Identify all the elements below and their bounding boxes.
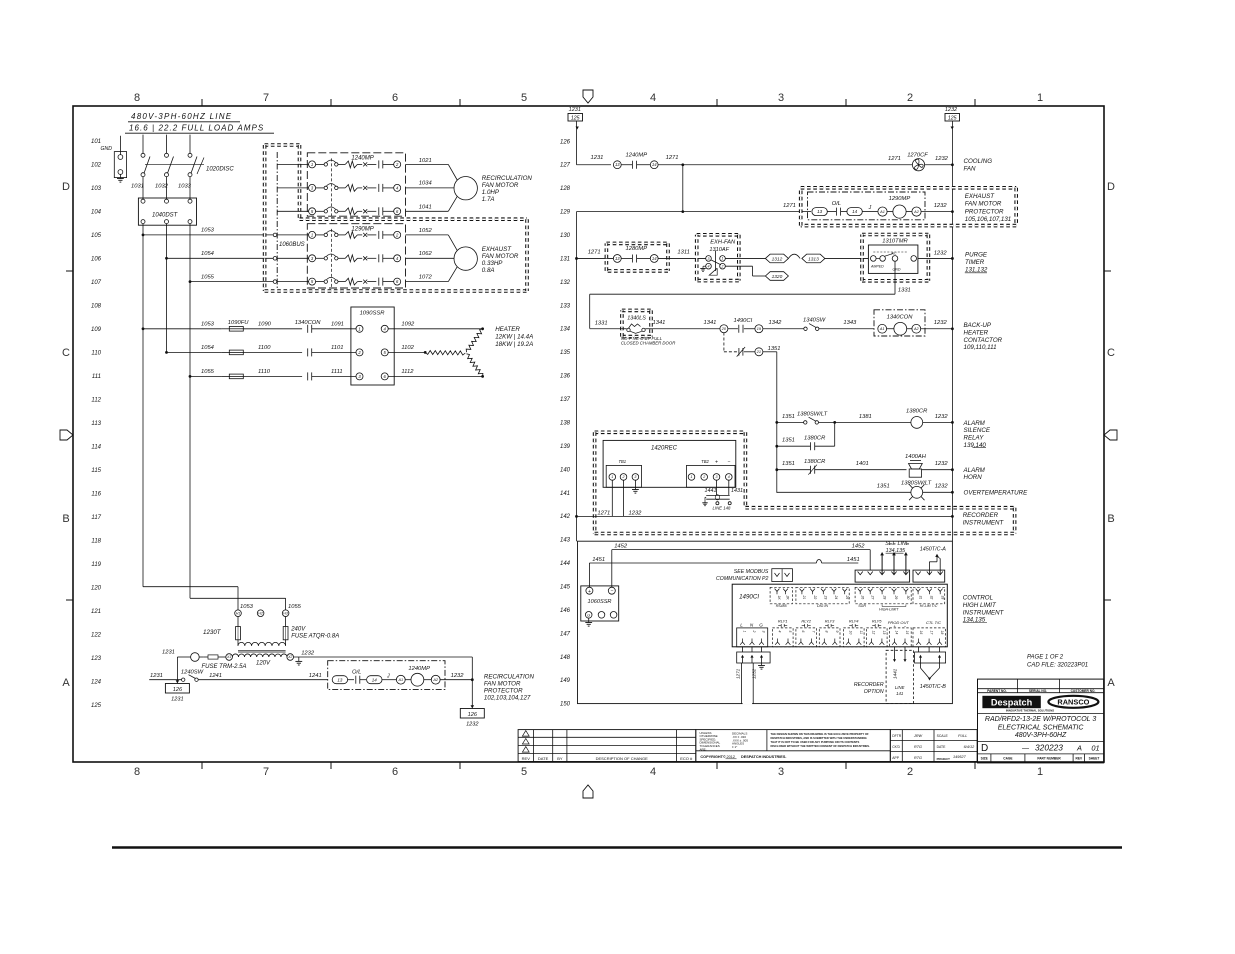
svg-text:1232: 1232 [629,510,643,516]
svg-text:6/4/12: 6/4/12 [964,745,975,749]
svg-text:12: 12 [872,631,876,635]
svg-text:110: 110 [91,351,101,357]
svg-text:ALARM: ALARM [963,420,986,427]
svg-text:G: G [587,613,590,618]
svg-text:14: 14 [372,677,378,682]
svg-text:137: 137 [560,397,571,403]
svg-text:JRW: JRW [913,734,923,738]
svg-text:7: 7 [263,92,269,104]
svg-text:EXHAUST: EXHAUST [482,246,512,253]
svg-text:0.33HP: 0.33HP [482,260,504,267]
svg-text:DFTR: DFTR [892,734,902,738]
svg-text:1111: 1111 [331,369,343,375]
svg-text:145: 145 [560,584,571,590]
svg-text:SEE LINE: SEE LINE [885,541,910,547]
svg-text:1040DST: 1040DST [152,213,179,219]
svg-text:HIGH LIMIT: HIGH LIMIT [963,602,997,609]
svg-text:1380CR: 1380CR [906,408,928,414]
svg-text:130: 130 [560,233,571,239]
svg-text:DATE: DATE [538,756,549,761]
svg-text:1241: 1241 [309,673,322,679]
svg-text:1271: 1271 [666,155,679,161]
svg-text:1401: 1401 [856,461,869,467]
svg-text:320223: 320223 [1035,743,1063,753]
svg-text:29: 29 [894,595,898,600]
svg-text:C: C [62,347,70,359]
svg-text:A: A [1107,677,1115,689]
svg-text:1055: 1055 [201,274,215,280]
svg-text:5: 5 [521,766,527,778]
svg-text:O/L: O/L [832,201,841,207]
svg-text:DESCRIPTION OF CHANGE: DESCRIPTION OF CHANGE [596,756,649,761]
svg-text:3: 3 [778,92,784,104]
svg-text:3: 3 [778,766,784,778]
svg-text:B: B [62,513,69,525]
svg-text:1232: 1232 [934,203,948,209]
svg-text:101: 101 [91,139,101,145]
svg-text:B: B [1107,513,1114,525]
svg-text:2: 2 [702,475,705,479]
svg-text:CUSTOMER NO.: CUSTOMER NO. [1071,689,1096,693]
svg-text:1101: 1101 [331,345,343,351]
svg-text:1.0HP: 1.0HP [482,189,500,196]
svg-text:HI-LIM T/C: HI-LIM T/C [920,604,938,608]
svg-text:APP: APP [892,756,900,760]
svg-text:RECORDER: RECORDER [963,512,999,519]
svg-text:18KW | 19.2A: 18KW | 19.2A [495,341,533,348]
svg-text:PART NUMBER: PART NUMBER [1037,757,1061,761]
svg-text:15: 15 [905,631,909,635]
svg-text:13: 13 [817,209,823,214]
svg-text:23: 23 [824,595,828,600]
svg-text:1331: 1331 [898,288,911,294]
svg-text:120: 120 [91,586,102,592]
svg-text:3: 3 [716,475,718,479]
svg-text:INNOVATIVE THERMAL SOLUTIONS: INNOVATIVE THERMAL SOLUTIONS [1006,709,1054,713]
svg-text:1343: 1343 [843,320,857,326]
svg-text:1351: 1351 [782,461,795,467]
svg-text:104: 104 [91,210,102,216]
svg-text:5: 5 [788,631,792,633]
svg-text:14: 14 [895,631,899,635]
svg-text:1062: 1062 [419,251,433,257]
svg-text:13: 13 [337,677,343,682]
svg-text:HIGH-LIMIT: HIGH-LIMIT [879,607,899,611]
svg-text:149527: 149527 [953,755,967,759]
svg-text:THE DESIGN SHOWN ON THIS DRAWI: THE DESIGN SHOWN ON THIS DRAWING IS THE … [771,732,870,736]
svg-text:103: 103 [91,186,102,192]
svg-text:1313: 1313 [808,256,819,262]
svg-text:1271: 1271 [588,249,601,255]
svg-text:2: 2 [907,766,913,778]
svg-text:115: 115 [91,468,101,474]
svg-text:HEATER: HEATER [495,326,520,333]
svg-text:RELAY: RELAY [964,435,985,442]
svg-text:30: 30 [906,596,910,600]
svg-text:139,140: 139,140 [964,442,987,449]
svg-text:27: 27 [870,595,874,600]
svg-text:18: 18 [940,631,944,635]
svg-text:C: C [1107,347,1115,359]
svg-text:1232: 1232 [301,651,315,657]
svg-text:1231: 1231 [171,697,183,703]
svg-text:1053: 1053 [201,228,215,234]
svg-text:28: 28 [882,595,886,600]
svg-text:HORN: HORN [964,474,983,481]
svg-text:1340LS: 1340LS [627,316,646,322]
svg-text:SIZE: SIZE [981,757,988,761]
svg-text:D: D [62,181,70,193]
svg-text:1232: 1232 [945,107,957,113]
svg-text:1053: 1053 [201,322,215,328]
svg-text:8: 8 [825,631,829,633]
svg-text:119: 119 [91,562,101,568]
svg-text:1351: 1351 [768,346,781,352]
svg-text:RLY3: RLY3 [825,618,835,623]
svg-text:SILENCE: SILENCE [964,427,991,434]
svg-text:132: 132 [560,280,571,286]
svg-text:+: + [715,460,718,466]
svg-text:CLOSED CHAMBER DOOR: CLOSED CHAMBER DOOR [621,341,675,346]
svg-text:1: 1 [311,162,313,167]
svg-text:105: 105 [91,233,102,239]
svg-text:109,110,111: 109,110,111 [964,344,997,351]
svg-text:126: 126 [173,687,183,693]
svg-text:1231: 1231 [150,673,163,679]
svg-text:1441: 1441 [705,488,717,494]
svg-text:13: 13 [882,631,886,635]
svg-text:240V: 240V [290,627,306,633]
svg-text:FUSE TRM-2.5A: FUSE TRM-2.5A [202,664,247,670]
svg-text:120V: 120V [256,661,271,667]
svg-text:1231: 1231 [569,107,581,113]
svg-text:1: 1 [358,326,360,331]
svg-text:FAN MOTOR: FAN MOTOR [965,201,1002,208]
svg-text:—: — [1021,745,1030,752]
svg-text:6: 6 [392,766,398,778]
svg-text:105,106,107,131: 105,106,107,131 [965,216,1011,223]
svg-text:31: 31 [918,596,922,600]
svg-text:D: D [981,743,988,754]
svg-text:1311: 1311 [677,249,689,255]
svg-text:1092: 1092 [401,322,415,328]
svg-text:FULL: FULL [958,734,967,738]
svg-text:1052: 1052 [419,228,433,234]
svg-text:PROTECTOR: PROTECTOR [965,208,1004,215]
svg-text:1072: 1072 [419,275,433,281]
svg-text:1232: 1232 [935,156,949,162]
svg-text:2012: 2012 [727,755,735,759]
svg-text:RTG: RTG [914,745,922,749]
svg-text:126: 126 [560,139,571,145]
svg-text:102,103,104,127: 102,103,104,127 [484,695,531,702]
svg-text:114: 114 [91,445,101,451]
svg-text:DIG IN: DIG IN [817,604,828,608]
svg-text:1490CI: 1490CI [734,318,753,324]
svg-text:1054: 1054 [201,345,214,351]
svg-text:D: D [1107,181,1115,193]
svg-text:DISCLOSED WITHOUT THE WRITTEN: DISCLOSED WITHOUT THE WRITTEN CONSENT OF… [771,744,871,748]
svg-text:O/L: O/L [352,670,361,676]
svg-text:CTL T/C: CTL T/C [926,620,941,625]
svg-text:134: 134 [560,327,571,333]
svg-text:1021: 1021 [419,158,432,164]
svg-text:141: 141 [896,691,904,696]
svg-text:1310TMR: 1310TMR [882,238,908,244]
svg-text:DESPATCH INDUSTRIES, AND IS SU: DESPATCH INDUSTRIES, AND IS SUBMITTED WI… [771,736,867,740]
svg-text:3: 3 [634,475,636,479]
svg-text:THAT IT IS NOT TO BE USED FOR: THAT IT IS NOT TO BE USED FOR ANY PURPOS… [771,740,860,744]
svg-text:118: 118 [91,539,101,545]
svg-text:OVERTEMPERATURE: OVERTEMPERATURE [964,490,1029,497]
svg-text:4: 4 [778,631,782,633]
svg-text:BY: BY [557,756,563,761]
svg-text:TB2: TB2 [701,459,709,464]
svg-text:A1: A1 [879,327,885,331]
svg-text:117: 117 [91,515,101,521]
svg-text:1312: 1312 [772,256,783,262]
svg-text:1271: 1271 [888,156,901,162]
svg-text:CAGE: CAGE [1003,757,1012,761]
svg-text:RLY1: RLY1 [778,618,788,623]
svg-text:1: 1 [743,631,747,633]
svg-text:4: 4 [650,92,656,104]
svg-text:1: 1 [722,257,724,261]
svg-text:HEATER: HEATER [964,329,989,336]
svg-text:1271: 1271 [736,668,741,679]
svg-text:1041: 1041 [419,205,432,211]
svg-text:A: A [1076,744,1082,753]
svg-text:EXHAUST: EXHAUST [965,193,995,200]
svg-text:RECORDER: RECORDER [854,682,884,688]
svg-text:21: 21 [802,595,806,600]
svg-text:2: 2 [752,630,756,633]
svg-text:OPTION: OPTION [864,689,884,695]
svg-text:RECIRCULATION: RECIRCULATION [484,674,535,681]
svg-text:CK'D: CK'D [892,745,900,749]
svg-text:1441: 1441 [893,668,898,679]
svg-text:1090: 1090 [258,322,272,328]
svg-text:REV: REV [1076,757,1083,761]
svg-text:6: 6 [392,92,398,104]
svg-text:A1: A1 [879,210,885,214]
svg-text:1100: 1100 [258,345,271,351]
svg-text:1400AH: 1400AH [905,454,927,460]
svg-text:133: 133 [560,303,571,309]
svg-text:1054: 1054 [201,251,214,257]
svg-text:150: 150 [560,702,571,708]
svg-text:G: G [759,622,763,627]
svg-text:13: 13 [615,256,620,261]
svg-text:01: 01 [1091,744,1099,753]
svg-text:1231: 1231 [591,155,604,161]
svg-text:20: 20 [721,327,727,331]
svg-text:1240SW: 1240SW [181,670,204,676]
svg-text:RTG: RTG [914,756,922,760]
svg-text:FAN MOTOR: FAN MOTOR [484,681,521,688]
svg-text:1241: 1241 [209,673,222,679]
svg-text:PROJECT: PROJECT [937,757,951,761]
svg-text:A2: A2 [913,210,920,214]
svg-text:1452: 1452 [852,543,866,549]
svg-text:1450T/C-B: 1450T/C-B [920,684,946,690]
svg-text:RLY4: RLY4 [849,618,859,623]
svg-text:0.8A: 0.8A [482,267,495,274]
svg-text:7: 7 [812,631,816,633]
svg-text:142: 142 [560,514,571,520]
svg-text:1232: 1232 [466,722,479,728]
svg-text:FAN: FAN [964,166,976,173]
svg-text:1351: 1351 [782,438,795,444]
svg-text:SGR: SGR [858,604,866,608]
svg-text:1381: 1381 [859,414,872,420]
svg-text:108: 108 [91,304,102,310]
svg-text:1380CR: 1380CR [804,436,826,442]
svg-text:4: 4 [728,475,730,479]
svg-text:FUSE ATQR-0.8A: FUSE ATQR-0.8A [291,634,339,640]
svg-text:11: 11 [859,631,863,635]
svg-text:140: 140 [560,467,571,473]
svg-text:INSTRUMENT: INSTRUMENT [963,609,1005,616]
svg-text:1230T: 1230T [203,629,222,636]
svg-text:1380SW/LT: 1380SW/LT [901,481,932,487]
svg-text:± 1°: ± 1° [732,745,738,749]
svg-text:GND: GND [893,268,901,272]
svg-text:129: 129 [560,210,571,216]
svg-text:ALARM: ALARM [963,467,986,474]
svg-text:1340CON: 1340CON [887,314,914,320]
svg-text:1320: 1320 [772,274,783,280]
svg-text:33: 33 [940,596,944,600]
svg-text:FAN MOTOR: FAN MOTOR [482,253,519,260]
svg-text:1452: 1452 [614,544,628,550]
svg-text:1290MP: 1290MP [351,227,373,233]
svg-text:1232: 1232 [935,484,949,490]
svg-text:135: 135 [560,350,571,356]
svg-text:8: 8 [134,92,140,104]
svg-text:1310AF: 1310AF [709,247,729,253]
svg-text:RLY5: RLY5 [872,618,882,623]
svg-text:ELECTRICAL SCHEMATIC: ELECTRICAL SCHEMATIC [998,724,1085,731]
svg-text:1110: 1110 [258,369,271,375]
svg-text:FAN MOTOR: FAN MOTOR [482,182,519,189]
svg-text:1342: 1342 [769,320,783,326]
svg-text:EXH-FAN: EXH-FAN [710,240,736,246]
svg-text:112: 112 [91,398,101,404]
svg-text:1232: 1232 [935,414,949,420]
svg-text:PROTECTOR: PROTECTOR [484,688,523,695]
svg-text:480V-3PH-60HZ: 480V-3PH-60HZ [1015,732,1067,739]
svg-text:Despatch: Despatch [991,697,1033,707]
svg-text:14: 14 [852,209,858,214]
svg-text:AMPED: AMPED [870,265,884,269]
svg-text:LINE 148: LINE 148 [713,506,732,511]
svg-text:143: 143 [560,538,571,544]
svg-text:121: 121 [91,609,101,615]
svg-text:1380CR: 1380CR [804,459,826,465]
svg-text:7: 7 [263,766,269,778]
svg-text:144: 144 [560,561,571,567]
svg-text:25: 25 [845,595,849,600]
svg-text:141: 141 [560,491,570,497]
svg-text:32: 32 [930,596,934,600]
svg-text:1331: 1331 [595,321,608,327]
svg-text:4: 4 [650,766,656,778]
svg-text:1420REC: 1420REC [651,446,678,452]
svg-text:136: 136 [560,374,571,380]
svg-text:8: 8 [134,766,140,778]
svg-text:−: − [727,460,730,466]
svg-text:107: 107 [91,280,102,286]
svg-text:1020DISC: 1020DISC [206,167,234,173]
svg-text:146: 146 [560,608,571,614]
svg-text:DESPATCH INDUSTRIES.: DESPATCH INDUSTRIES. [741,755,786,759]
svg-text:CONTROL: CONTROL [963,595,994,602]
svg-text:1341: 1341 [653,320,666,326]
svg-text:H3: H3 [283,611,288,615]
svg-text:1232: 1232 [934,250,948,256]
svg-text:1340SW: 1340SW [803,318,826,324]
svg-text:5: 5 [521,92,527,104]
svg-text:1091: 1091 [331,322,344,328]
svg-text:113: 113 [91,421,101,427]
svg-text:1431: 1431 [731,488,743,494]
svg-text:1112: 1112 [401,369,414,375]
svg-text:ARE:: ARE: [700,747,707,751]
svg-text:J: J [386,674,390,680]
svg-text:102: 102 [91,163,102,169]
svg-text:TB1: TB1 [618,459,626,464]
svg-text:1232: 1232 [935,461,949,467]
svg-text:127: 127 [560,163,571,169]
svg-text:131,132: 131,132 [965,267,988,274]
svg-text:16.6 | 22.2 FULL LOAD AMPS: 16.6 | 22.2 FULL LOAD AMPS [129,124,264,133]
svg-text:1060BUS: 1060BUS [279,242,305,248]
svg-text:2K: 2K [786,595,790,601]
svg-text:17: 17 [929,631,933,635]
svg-text:RECIRCULATION: RECIRCULATION [482,175,533,182]
svg-text:X1: X1 [226,655,231,659]
svg-text:131: 131 [560,256,570,262]
svg-text:1271: 1271 [597,510,610,516]
svg-text:1451: 1451 [592,557,605,563]
svg-text:123: 123 [91,656,102,662]
svg-text:REV: REV [522,756,531,761]
svg-text:L: L [740,622,743,627]
svg-text:BACK-UP: BACK-UP [964,322,992,329]
svg-text:128: 128 [560,186,571,192]
svg-text:1240MP: 1240MP [626,153,648,159]
svg-text:24: 24 [834,595,838,600]
svg-text:125: 125 [91,703,102,709]
svg-text:RLY2: RLY2 [801,618,811,623]
svg-text:1231: 1231 [162,650,175,656]
svg-text:1280MP: 1280MP [626,246,648,252]
svg-text:1240MP: 1240MP [351,156,373,162]
svg-text:106: 106 [91,257,102,263]
svg-text:1351: 1351 [877,484,890,490]
svg-text:3: 3 [708,257,710,261]
svg-text:1.7A: 1.7A [482,196,495,203]
svg-text:124: 124 [91,680,102,686]
svg-text:A1: A1 [397,678,403,682]
svg-text:A2: A2 [432,678,439,682]
svg-text:1: 1 [611,475,613,479]
svg-text:SHEET: SHEET [1089,757,1100,761]
svg-text:1034: 1034 [419,181,432,187]
svg-text:148: 148 [560,655,571,661]
svg-text:RS485: RS485 [776,604,787,608]
